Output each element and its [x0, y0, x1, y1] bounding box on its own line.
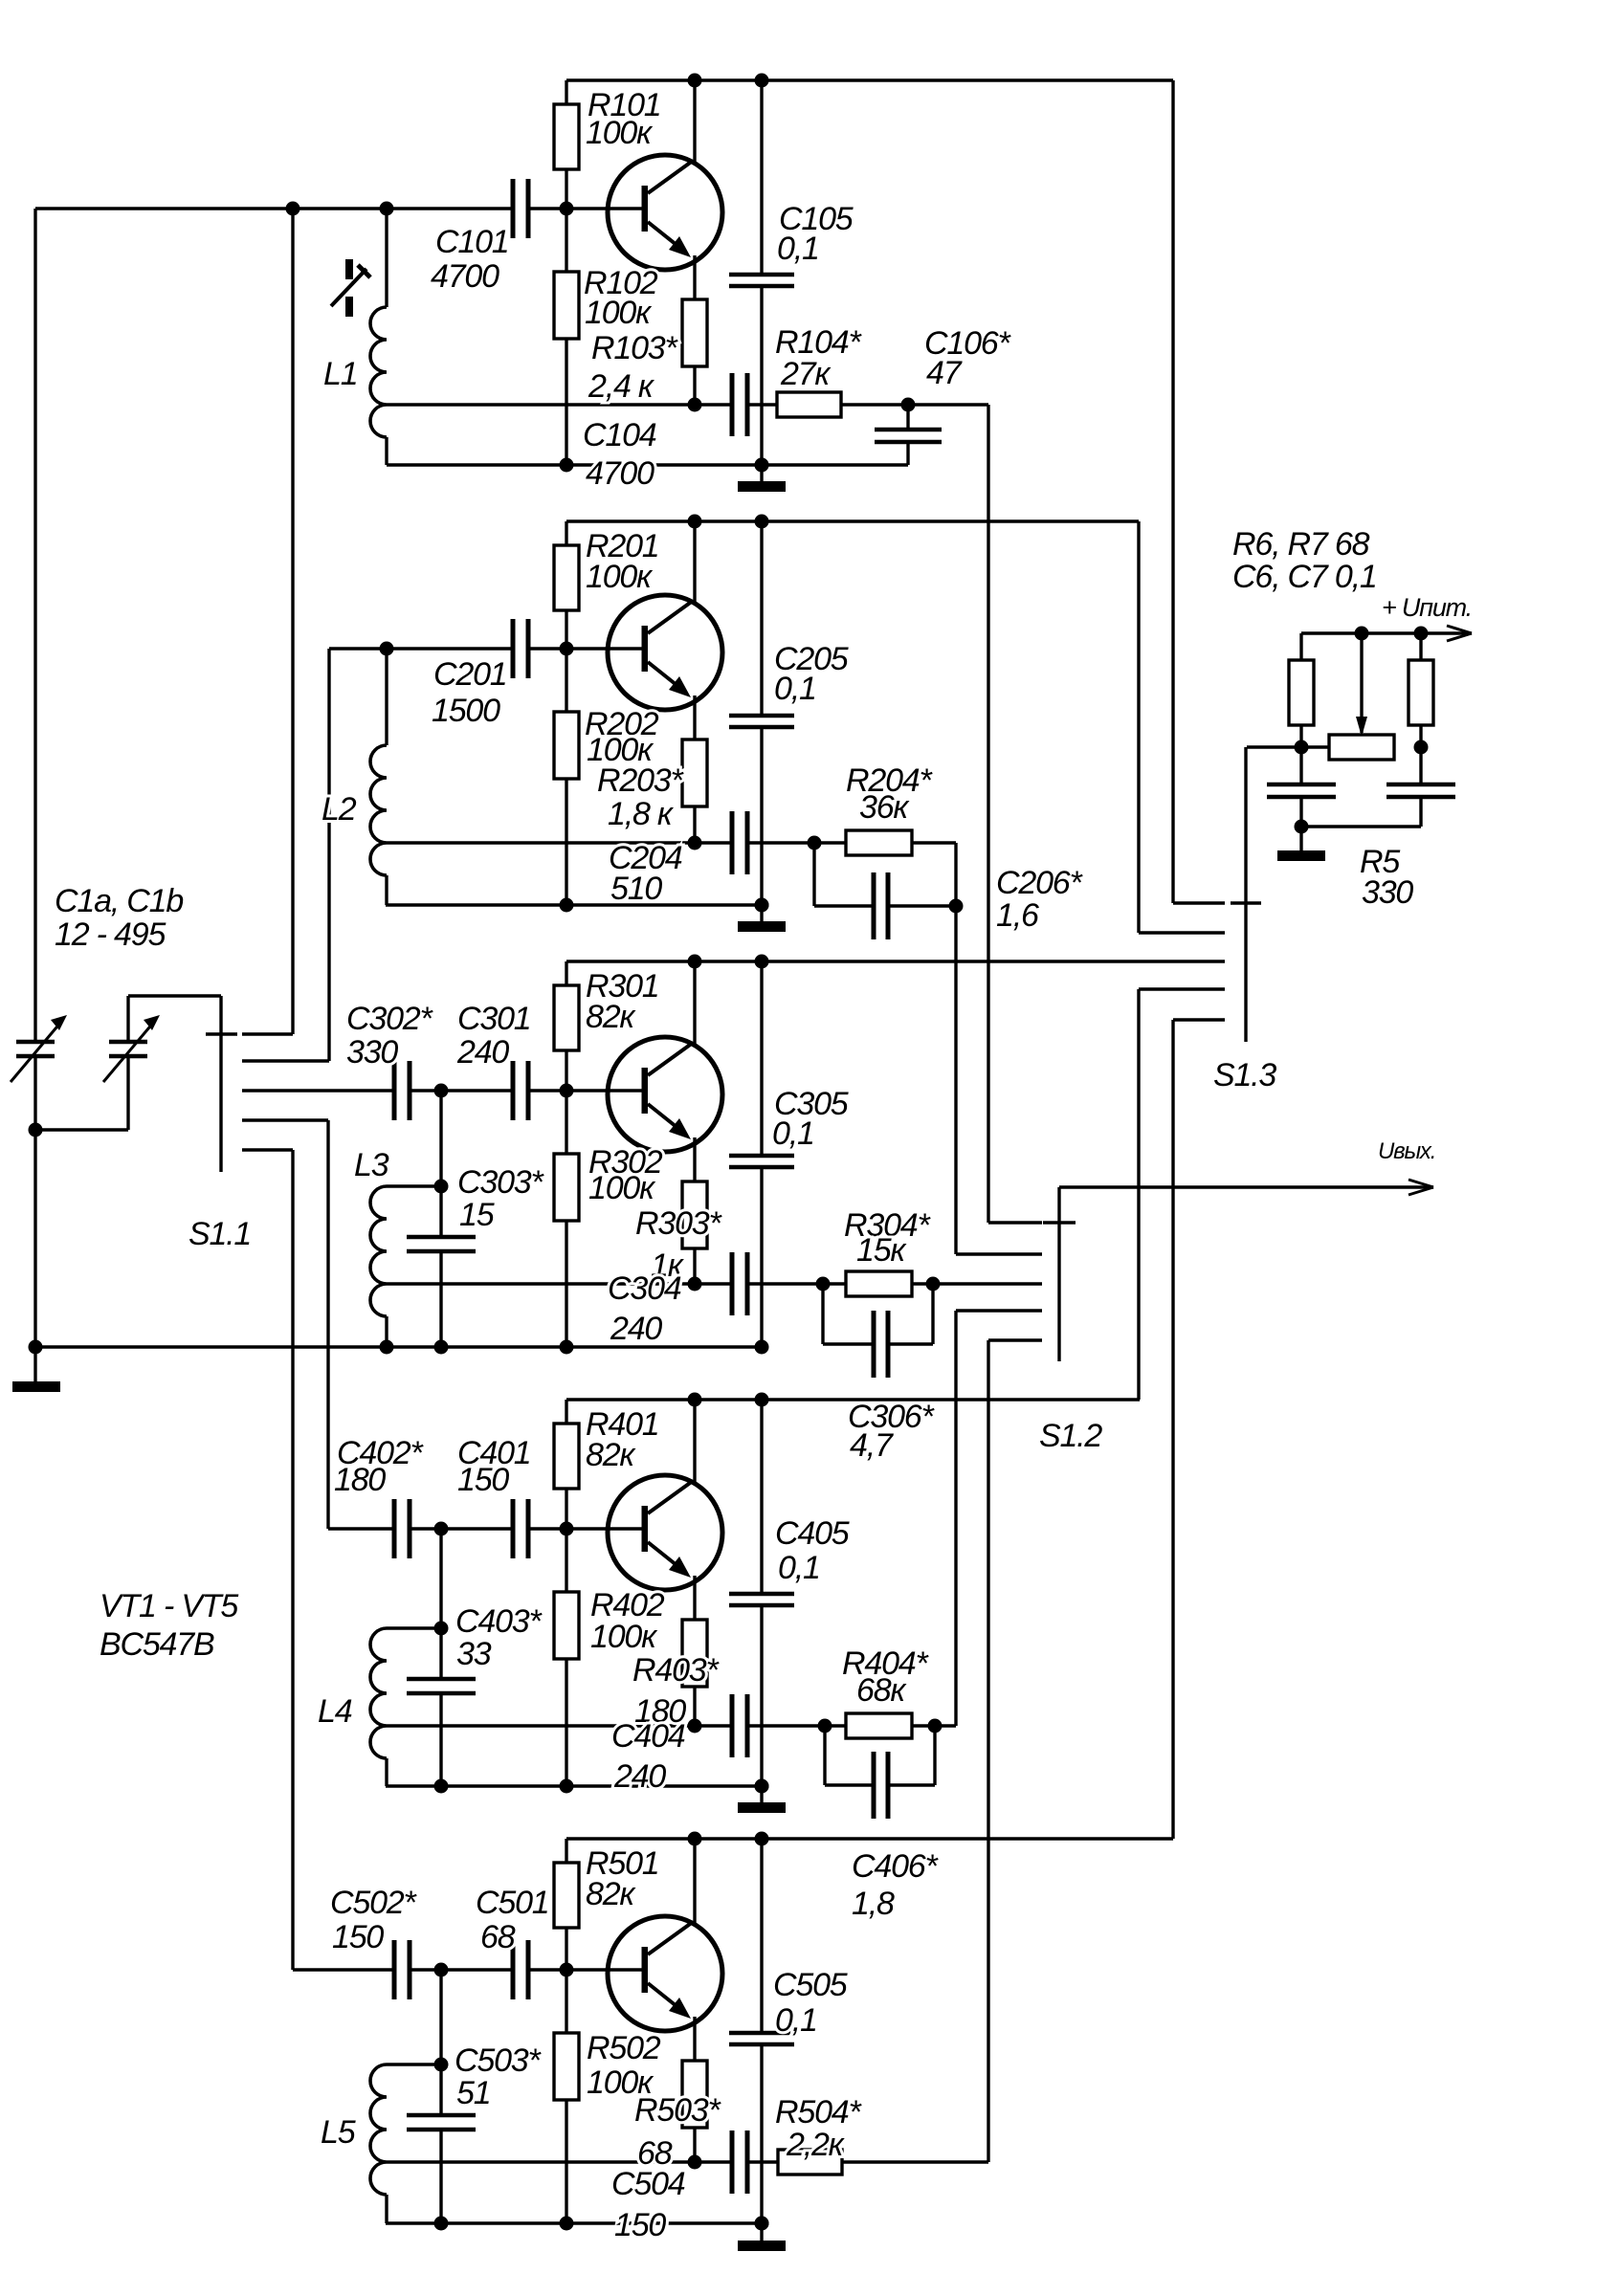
svg-text:C504: C504 — [611, 2166, 685, 2202]
svg-text:100к: 100к — [590, 1619, 658, 1655]
svg-text:33: 33 — [456, 1636, 492, 1672]
svg-text:C1a, C1b: C1a, C1b — [55, 883, 183, 919]
svg-text:C501: C501 — [476, 1885, 548, 1921]
svg-text:L1: L1 — [323, 356, 357, 392]
svg-text:0,1: 0,1 — [772, 1115, 814, 1152]
svg-text:C503*: C503* — [455, 2042, 542, 2079]
svg-text:100к: 100к — [586, 559, 654, 595]
svg-text:240: 240 — [613, 1758, 666, 1795]
svg-text:C406*: C406* — [852, 1848, 939, 1885]
svg-text:1,6: 1,6 — [996, 897, 1039, 934]
svg-text:240: 240 — [610, 1311, 662, 1347]
svg-text:330: 330 — [1362, 874, 1413, 911]
svg-text:Uвых.: Uвых. — [1378, 1138, 1435, 1164]
svg-text:C101: C101 — [435, 224, 508, 260]
svg-text:82к: 82к — [586, 1437, 636, 1473]
svg-text:1,8 к: 1,8 к — [608, 796, 675, 832]
svg-text:S1.1: S1.1 — [189, 1216, 251, 1252]
svg-text:47: 47 — [926, 355, 963, 391]
svg-text:C505: C505 — [773, 1967, 848, 2003]
svg-text:1,8: 1,8 — [852, 1886, 895, 1922]
svg-text:R504*: R504* — [775, 2094, 862, 2130]
svg-text:0,1: 0,1 — [777, 231, 819, 267]
svg-text:C206*: C206* — [996, 865, 1083, 901]
svg-text:C6, C7 0,1: C6, C7 0,1 — [1232, 559, 1377, 595]
svg-text:330: 330 — [346, 1034, 398, 1071]
svg-text:82к: 82к — [586, 999, 636, 1035]
svg-text:VT1 - VT5: VT1 - VT5 — [100, 1588, 238, 1624]
svg-text:C403*: C403* — [455, 1603, 543, 1640]
svg-text:4700: 4700 — [431, 258, 499, 295]
svg-text:R6, R7 68: R6, R7 68 — [1232, 526, 1370, 563]
svg-text:240: 240 — [456, 1034, 509, 1071]
svg-text:R303*: R303* — [635, 1205, 722, 1242]
svg-text:27к: 27к — [780, 356, 832, 392]
svg-text:2,4 к: 2,4 к — [588, 368, 655, 405]
svg-text:150: 150 — [457, 1462, 509, 1498]
svg-text:180: 180 — [334, 1462, 386, 1498]
svg-text:L3: L3 — [354, 1147, 389, 1183]
svg-text:R103*: R103* — [591, 330, 678, 366]
svg-text:100к: 100к — [588, 1170, 656, 1206]
svg-text:4700: 4700 — [586, 455, 654, 492]
svg-text:0,1: 0,1 — [774, 671, 816, 707]
svg-text:36к: 36к — [859, 789, 910, 826]
svg-text:S1.2: S1.2 — [1039, 1418, 1102, 1454]
svg-text:100к: 100к — [585, 295, 653, 331]
svg-text:C502*: C502* — [330, 1885, 417, 1921]
svg-text:L4: L4 — [318, 1693, 352, 1730]
svg-text:82к: 82к — [586, 1876, 636, 1912]
svg-text:R503*: R503* — [634, 2092, 721, 2129]
svg-text:C201: C201 — [433, 656, 506, 693]
svg-text:C304: C304 — [608, 1270, 681, 1307]
svg-text:0,1: 0,1 — [778, 1550, 820, 1586]
svg-text:68: 68 — [480, 1919, 516, 1955]
svg-text:0,1: 0,1 — [775, 2002, 817, 2039]
svg-text:BC547B: BC547B — [100, 1626, 214, 1663]
svg-text:S1.3: S1.3 — [1213, 1057, 1276, 1093]
svg-text:68к: 68к — [856, 1672, 907, 1709]
svg-text:C404: C404 — [611, 1718, 685, 1755]
svg-text:C104: C104 — [583, 417, 656, 453]
svg-text:150: 150 — [614, 2207, 666, 2243]
svg-text:100к: 100к — [586, 115, 654, 151]
svg-text:L2: L2 — [322, 791, 357, 828]
svg-text:R502: R502 — [587, 2030, 661, 2066]
svg-text:12 - 495: 12 - 495 — [55, 916, 166, 953]
svg-text:1500: 1500 — [432, 693, 500, 729]
svg-text:2,2к: 2,2к — [786, 2127, 846, 2163]
svg-text:R203*: R203* — [597, 762, 684, 799]
svg-text:+ Uпит.: + Uпит. — [1382, 593, 1472, 622]
svg-text:C405: C405 — [775, 1515, 850, 1552]
svg-text:51: 51 — [456, 2075, 490, 2111]
svg-text:C301: C301 — [457, 1001, 530, 1037]
svg-text:L5: L5 — [321, 2114, 356, 2151]
svg-text:R403*: R403* — [632, 1652, 720, 1689]
svg-text:15: 15 — [459, 1197, 495, 1233]
svg-text:4,7: 4,7 — [850, 1427, 894, 1464]
svg-text:150: 150 — [332, 1919, 384, 1955]
svg-text:C302*: C302* — [346, 1001, 433, 1037]
svg-text:510: 510 — [610, 871, 662, 907]
svg-text:15к: 15к — [856, 1232, 907, 1269]
svg-text:C303*: C303* — [457, 1164, 544, 1201]
